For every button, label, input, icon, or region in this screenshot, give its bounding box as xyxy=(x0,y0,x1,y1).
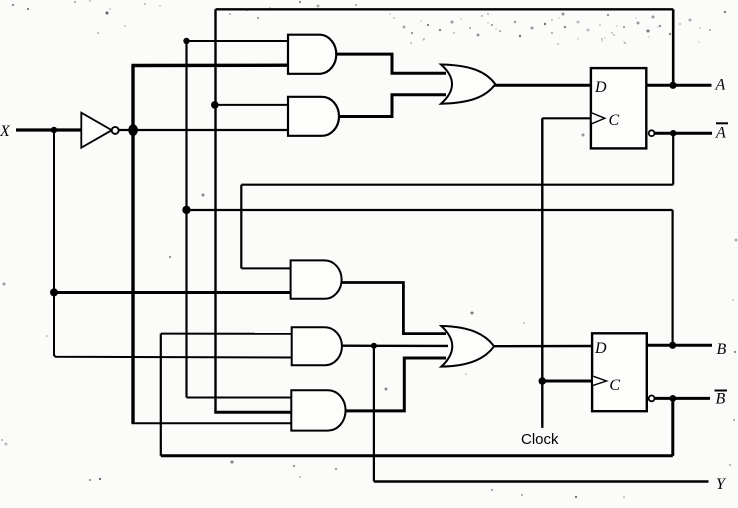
wire OR2 output to FF2 D xyxy=(493,345,593,348)
wire clock to FF2 C xyxy=(542,380,593,383)
wire AND2 output xyxy=(336,95,446,117)
node X to AND3 junction xyxy=(50,288,58,296)
wire Xbar to AND2 lower input xyxy=(118,129,292,131)
wire Bbar feedback right vertical xyxy=(671,398,674,455)
svg-text:A: A xyxy=(715,125,726,142)
wire OR1 output to FF1 D xyxy=(494,84,592,87)
wire clock to FF1 C xyxy=(542,117,592,119)
node B corner junction top xyxy=(183,38,189,44)
AND gate 2 (A AND Xbar) xyxy=(288,97,339,136)
AND gate 5 (B AND A AND Xbar) xyxy=(291,390,345,430)
svg-text:X: X xyxy=(0,123,11,140)
node Bbar label xyxy=(715,391,728,408)
wire FF1 Qbar output Abar xyxy=(655,132,713,135)
AND gate 1 (B AND Xbar) xyxy=(288,35,336,74)
svg-text:C: C xyxy=(609,112,620,129)
OR gate 2 xyxy=(441,326,494,367)
wire clock vertical xyxy=(541,118,543,428)
wire Bbar feedback left vertical xyxy=(160,334,162,456)
D flip-flop 1 clock edge triangle xyxy=(592,113,605,124)
wire Xbar to AND1 lower input xyxy=(132,63,293,67)
node X input junction xyxy=(51,127,57,133)
wire X to AND4 lower input xyxy=(54,355,295,358)
node Xbar big junction xyxy=(128,124,138,136)
svg-text:Clock: Clock xyxy=(521,431,559,448)
wire Xbar vertical rail xyxy=(131,66,134,424)
wire B vertical rail xyxy=(185,41,187,398)
svg-text:B: B xyxy=(716,391,726,408)
node AND4 output Y junction xyxy=(371,343,377,349)
wire AND1 output xyxy=(336,54,446,73)
wire X to AND3 lower input xyxy=(54,291,294,294)
node clock junction xyxy=(539,377,547,385)
node A to AND2 junction xyxy=(211,101,219,109)
wire Y vertical from AND4 output node xyxy=(373,346,375,482)
node A output junction xyxy=(669,82,676,89)
wire A to AND5 middle input xyxy=(214,411,295,414)
svg-text:D: D xyxy=(594,79,607,96)
node B feedback T junction xyxy=(182,206,190,214)
wire Y horizontal xyxy=(374,480,709,482)
svg-text:C: C xyxy=(609,377,620,394)
wire B to AND5 upper input xyxy=(187,397,296,399)
wire Abar feedback left vertical xyxy=(240,185,242,269)
wire AND5 output xyxy=(344,358,446,411)
wire A feedback left vertical xyxy=(214,9,216,412)
svg-text:D: D xyxy=(594,340,607,357)
wire B feedback right vertical xyxy=(671,210,673,345)
wire Abar to AND3 upper input xyxy=(241,267,294,269)
wire FF2 Q output B xyxy=(647,344,712,347)
wire B to AND1 upper input xyxy=(187,40,293,42)
svg-text:A: A xyxy=(715,77,726,94)
AND gate 3 (Abar AND X) xyxy=(291,260,342,298)
D flip-flop 2 Qbar bubble xyxy=(649,396,655,402)
wire X input xyxy=(16,128,82,131)
node Abar label xyxy=(715,123,728,141)
node Bbar output junction xyxy=(669,395,676,402)
D flip-flop 1 (A) box xyxy=(591,68,646,148)
D flip-flop 2 (B) box xyxy=(592,333,647,411)
wire Xbar to AND5 third input xyxy=(132,422,296,424)
wire FF2 Qbar output Bbar xyxy=(655,397,711,400)
svg-text:B: B xyxy=(717,341,727,358)
wire FF1 Q output A xyxy=(646,84,711,87)
wire Bbar feedback bottom horizontal xyxy=(161,454,673,457)
wire A to AND2 upper input xyxy=(214,104,292,106)
wire Abar feedback horizontal xyxy=(241,184,673,186)
wire Bbar to AND4 upper input xyxy=(161,333,295,335)
wire A feedback top horizontal xyxy=(216,8,674,10)
wire Abar feedback right vertical xyxy=(672,133,674,185)
wire A feedback right vertical xyxy=(672,9,675,85)
wire AND4 output to OR2 xyxy=(340,345,448,348)
node B output junction xyxy=(669,342,676,349)
D flip-flop 1 Qbar bubble xyxy=(649,130,655,136)
OR gate 1 xyxy=(441,65,495,104)
wire B feedback horizontal xyxy=(187,209,673,211)
AND gate 4 (Bbar AND X) xyxy=(292,327,342,365)
inverter gate xyxy=(81,113,118,148)
wire X vertical rail xyxy=(53,130,55,356)
wire AND3 output xyxy=(340,283,446,334)
node Abar output junction xyxy=(670,130,676,136)
D flip-flop 2 clock edge triangle xyxy=(593,376,607,385)
